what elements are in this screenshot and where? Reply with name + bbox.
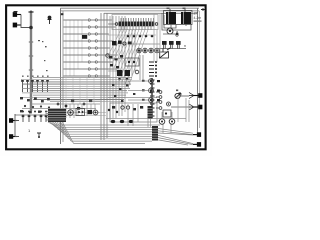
multipin connector block: [48, 109, 66, 122]
connector P2: [13, 23, 21, 27]
wire: [66, 112, 106, 114]
main harness horizontal loom: [22, 78, 132, 102]
ammeter gauge: [167, 28, 173, 34]
rear connector block: [152, 126, 158, 141]
junction box outline: [110, 103, 157, 122]
wire: [66, 115, 106, 117]
plug PL2: [10, 135, 18, 139]
harness lower drops: [66, 104, 95, 118]
regulator K1: [160, 48, 171, 58]
wire: [61, 10, 200, 12]
loom left wedge turns: [48, 122, 74, 143]
tail lamp T2: [169, 119, 175, 125]
harness vertical drops: [66, 76, 94, 104]
central vertical loom: [101, 13, 135, 140]
lower cluster marks: [57, 100, 93, 110]
svg-text:n: n: [184, 44, 186, 48]
horn H1: [68, 110, 73, 115]
wire: [21, 15, 31, 28]
fuse strip: [119, 22, 155, 27]
wire: [186, 98, 189, 122]
ladder connector row 6: [64, 54, 118, 56]
wire: [31, 103, 100, 105]
grommet: [111, 120, 115, 123]
wire: [108, 97, 157, 99]
wire tap: [176, 33, 178, 35]
small ring: [176, 34, 178, 36]
wire: [163, 33, 176, 35]
junction box parts: [108, 106, 143, 113]
strip end terminal right: [155, 23, 158, 26]
wire: [177, 96, 179, 122]
gauge feed ticks: [142, 80, 145, 101]
switch S3: [118, 41, 122, 44]
grommet: [120, 120, 124, 123]
ladder connector row 7: [64, 61, 113, 63]
switch S1: [82, 35, 87, 39]
connector CR1: [189, 93, 202, 99]
wire: [170, 9, 185, 12]
connector CB2: [193, 143, 201, 147]
connector CB1: [193, 133, 201, 137]
wire: [62, 11, 64, 142]
loom pass-through wires: [158, 129, 193, 146]
row head circles: [22, 111, 47, 113]
battery case outline: [164, 11, 193, 25]
ladder connector row 9: [64, 75, 110, 77]
battery labels: [167, 8, 170, 10]
sender cluster stems: [23, 82, 48, 92]
label speck: [176, 90, 178, 92]
lamp wire: [159, 48, 186, 50]
lamp L1: [163, 42, 167, 49]
indicator row: [127, 35, 154, 38]
fuse F1: [29, 11, 34, 14]
bulb column: [156, 91, 162, 110]
svg-text:4-2m: 4-2m: [194, 16, 202, 20]
wire drops to band: [128, 104, 138, 126]
strip drops: [148, 119, 151, 127]
ignition unit: [117, 70, 130, 76]
wire: [108, 70, 118, 72]
wire: [198, 131, 200, 135]
top bus wires: [61, 7, 200, 9]
label specks: [38, 40, 48, 71]
mid cluster marks: [109, 55, 123, 68]
wire bundle: [140, 55, 143, 80]
wire: [108, 34, 156, 36]
relay box outline: [112, 15, 158, 30]
wiper motor: [93, 110, 98, 115]
ladder connector row 8: [64, 68, 116, 70]
relay box: [76, 109, 85, 116]
control box: [125, 58, 139, 66]
antenna terminal: [48, 16, 52, 24]
switch S2: [112, 41, 117, 45]
battery B2: [181, 12, 191, 24]
wires fanning from fuse strip: [108, 30, 148, 89]
right feeder wires: [154, 13, 160, 62]
wire: [15, 114, 48, 116]
grommet: [129, 120, 133, 123]
node dot: [29, 26, 33, 30]
fuse strip pins: [121, 18, 154, 22]
harness box left edge: [60, 8, 62, 144]
battery B1: [166, 12, 176, 24]
junction rings: [121, 106, 124, 109]
border frame: [6, 5, 206, 149]
sender labels: [22, 76, 49, 77]
wire: [128, 81, 149, 100]
coil: [167, 102, 171, 106]
left main bus: [30, 13, 32, 111]
ladder connector row 2: [64, 26, 116, 28]
wire: [199, 11, 201, 128]
ladder feeder wires: [66, 20, 82, 76]
wire: [162, 112, 172, 119]
lamp L3: [177, 42, 181, 49]
mid ring: [106, 54, 110, 58]
wire: [15, 114, 19, 137]
terminal strip 2: [148, 106, 153, 119]
block pins: [46, 111, 49, 120]
plug PL1: [10, 119, 18, 123]
switch S4: [88, 110, 93, 114]
ladder connector row 5: [64, 47, 110, 49]
wire: [181, 95, 190, 97]
pilot lamp: [135, 70, 139, 74]
connector P1: [13, 12, 21, 17]
wire: [104, 12, 197, 14]
right gauge ladder: [149, 79, 154, 103]
right bus: [197, 8, 199, 131]
bottom connector row: [23, 117, 46, 122]
terminal mark: [201, 8, 205, 11]
wire: [106, 118, 186, 120]
fuse strip lower pins: [121, 26, 151, 29]
wire: [108, 58, 124, 60]
bus tap dashes: [29, 42, 33, 70]
strip end terminal left: [115, 23, 118, 26]
wire loop under batteries: [162, 13, 191, 30]
wire: [50, 100, 100, 102]
lamp L2: [170, 42, 174, 49]
fuse panel cluster: [20, 97, 50, 113]
row of dash gauges: [137, 48, 160, 53]
ring indicator: [123, 42, 126, 45]
cluster specks: [112, 84, 135, 102]
terminal strip: [149, 62, 155, 116]
tail lamp T1: [159, 119, 165, 125]
connector CR2: [189, 104, 202, 110]
ladder connector row 3: [64, 33, 109, 35]
gauge terminals: [157, 80, 160, 101]
starter motor: [175, 93, 181, 99]
border tick: [61, 13, 64, 15]
wire: [108, 23, 115, 25]
wire: [163, 124, 171, 133]
wire: [171, 106, 189, 108]
terminal strip body: [151, 78, 153, 118]
svg-text:2T: 2T: [194, 11, 199, 16]
clip mark: [37, 133, 41, 136]
wire: [128, 43, 160, 45]
ladder connector row 1: [64, 19, 112, 21]
ladder connector row 4: [64, 40, 114, 42]
wire: [22, 108, 96, 110]
distributor box: [163, 110, 171, 117]
small box: [128, 42, 132, 45]
bottom loom bundle: [54, 125, 161, 143]
